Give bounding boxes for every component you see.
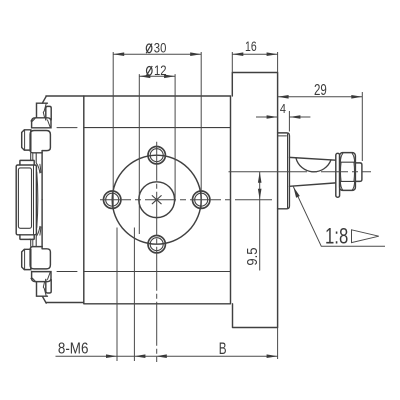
port boss vertical edge bbox=[41, 151, 43, 200]
bottom port line across face bbox=[84, 271, 231, 273]
wedge to pad bbox=[37, 164, 41, 173]
front view vertical centerline bbox=[156, 142, 158, 362]
ext line 4 right bbox=[288, 111, 290, 132]
pad side bulge arc bbox=[37, 172, 38, 227]
text ø12 bbox=[146, 66, 152, 76]
top port line across face bbox=[84, 127, 231, 129]
pad inner slot bbox=[18, 168, 31, 228]
hex lower lobe bottom edge bbox=[30, 150, 42, 153]
front view horizontal centerline bbox=[100, 199, 240, 201]
boss fillet bbox=[42, 96, 46, 103]
fitting neck bbox=[37, 103, 48, 118]
front face square bbox=[84, 96, 231, 304]
ext lines ø12 bbox=[139, 74, 175, 234]
rear body top edge bbox=[46, 95, 84, 97]
bolt hole right bbox=[193, 191, 210, 208]
cap square bbox=[22, 130, 31, 150]
shaft nut bbox=[340, 153, 356, 191]
dim line 29 bbox=[278, 96, 363, 98]
svg-text:B: B bbox=[219, 339, 227, 357]
ext lines 16 bbox=[232, 52, 277, 73]
mounting flange (side) bbox=[232, 73, 277, 328]
svg-text:30: 30 bbox=[154, 40, 167, 55]
bolt hole bottom bbox=[148, 236, 165, 253]
svg-text:8-M6: 8-M6 bbox=[58, 341, 89, 358]
arrowheads bbox=[106, 52, 362, 358]
taper symbol bbox=[352, 230, 379, 243]
pad right inner line bbox=[33, 165, 35, 235]
dim line 16 bbox=[232, 53, 277, 55]
dim line ø30 bbox=[113, 53, 201, 55]
svg-text:4: 4 bbox=[280, 101, 286, 116]
M6 extension line right bbox=[133, 228, 135, 362]
ext lines ø30 bbox=[113, 52, 201, 208]
seal plate inner line bbox=[278, 135, 287, 137]
center X mark bbox=[152, 196, 161, 204]
shaft top edge (taper) bbox=[289, 157, 335, 160]
shaft bottom edge (taper) bbox=[289, 183, 335, 186]
hex lower lobe bbox=[30, 131, 50, 151]
M6 extension line left bbox=[116, 228, 118, 362]
bottom dim line bbox=[56, 355, 278, 357]
center bore circle bbox=[139, 182, 175, 218]
centerlines bbox=[100, 142, 371, 362]
bracket pad body bbox=[16, 165, 36, 235]
svg-text:29: 29 bbox=[314, 81, 327, 98]
seal plate inner edge bbox=[287, 134, 289, 208]
shaft washer bbox=[336, 153, 340, 197]
text ø30 bbox=[146, 44, 152, 54]
rear body bottom edge bbox=[46, 302, 84, 304]
key seat arc bbox=[296, 158, 331, 172]
bracket pad upper ledge bbox=[20, 160, 34, 165]
threaded stub bbox=[355, 163, 362, 182]
lower neck bbox=[29, 153, 32, 160]
leader 1:8 bbox=[293, 187, 385, 247]
bolt hole left bbox=[104, 191, 121, 208]
pilot circle bbox=[112, 155, 201, 244]
dimensions bbox=[56, 52, 386, 359]
hex upper lobe bbox=[32, 118, 51, 128]
dimension texts bbox=[58, 39, 348, 358]
svg-text:9.5: 9.5 bbox=[243, 247, 260, 265]
ext line flange corner bottom bbox=[277, 328, 279, 360]
dim line 9.5 bbox=[259, 172, 261, 271]
bracket pad lower ledge bbox=[20, 235, 34, 240]
shaft centerline bbox=[229, 171, 281, 173]
neck washer bbox=[46, 106, 51, 120]
svg-text:16: 16 bbox=[245, 39, 257, 55]
top port centerline dash bbox=[57, 127, 77, 129]
ext line 29 right bbox=[361, 92, 363, 161]
bolt hole top bbox=[148, 147, 165, 164]
svg-text:1:8: 1:8 bbox=[325, 224, 348, 249]
dim line 4 bbox=[256, 116, 310, 118]
left port fitting bottom (mirror) bbox=[22, 200, 52, 303]
seal plate (4mm) bbox=[278, 133, 290, 209]
svg-text:12: 12 bbox=[154, 63, 167, 78]
dim line ø12 bbox=[139, 75, 175, 77]
left port fitting top bbox=[22, 96, 52, 199]
bottom port centerline dash bbox=[57, 271, 77, 273]
